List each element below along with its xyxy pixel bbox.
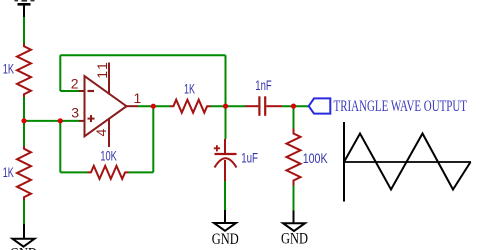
svg-text:1: 1 <box>134 90 142 106</box>
svg-text:1K: 1K <box>184 82 195 97</box>
svg-text:GND: GND <box>10 246 37 250</box>
svg-text:1nF: 1nF <box>255 78 271 93</box>
svg-text:1K: 1K <box>3 62 14 77</box>
svg-text:2: 2 <box>71 76 79 92</box>
svg-text:10K: 10K <box>100 148 116 163</box>
svg-text:11: 11 <box>94 60 110 79</box>
svg-text:1K: 1K <box>3 165 14 180</box>
svg-text:100K: 100K <box>303 151 328 166</box>
svg-text:GND: GND <box>281 230 308 247</box>
svg-text:3: 3 <box>71 104 79 120</box>
svg-text:1uF: 1uF <box>241 150 258 165</box>
svg-text:TRIANGLE WAVE OUTPUT: TRIANGLE WAVE OUTPUT <box>334 98 468 115</box>
svg-text:4: 4 <box>93 129 109 137</box>
svg-text:GND: GND <box>212 231 239 248</box>
